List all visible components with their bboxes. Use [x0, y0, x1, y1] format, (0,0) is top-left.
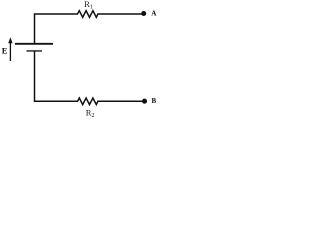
svg-text:A: A: [151, 10, 157, 18]
svg-text:B: B: [152, 97, 157, 105]
svg-text:R2: R2: [86, 108, 95, 120]
svg-text:E: E: [2, 46, 8, 56]
svg-text:R1: R1: [84, 0, 93, 11]
